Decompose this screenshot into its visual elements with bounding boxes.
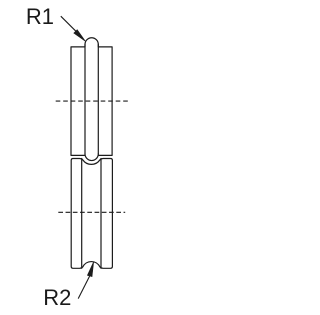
arrowhead R2 xyxy=(87,262,93,277)
leader line R2 xyxy=(78,276,90,299)
top roller dashed centerline xyxy=(56,100,129,102)
bottom roller dashed centerline xyxy=(58,211,125,213)
svg-text:R1: R1 xyxy=(26,4,54,29)
bottom roller groove silhouette left line xyxy=(81,159,83,269)
bottom roller groove silhouette right line xyxy=(100,159,102,269)
bottom roller outline xyxy=(71,159,112,269)
leader line R1 xyxy=(61,16,80,35)
top roller rib silhouette right line xyxy=(97,44,99,153)
arrowhead R1 xyxy=(74,30,86,42)
top roller outline xyxy=(71,38,112,161)
svg-text:R2: R2 xyxy=(43,285,71,310)
top roller rib silhouette left line xyxy=(84,44,86,153)
